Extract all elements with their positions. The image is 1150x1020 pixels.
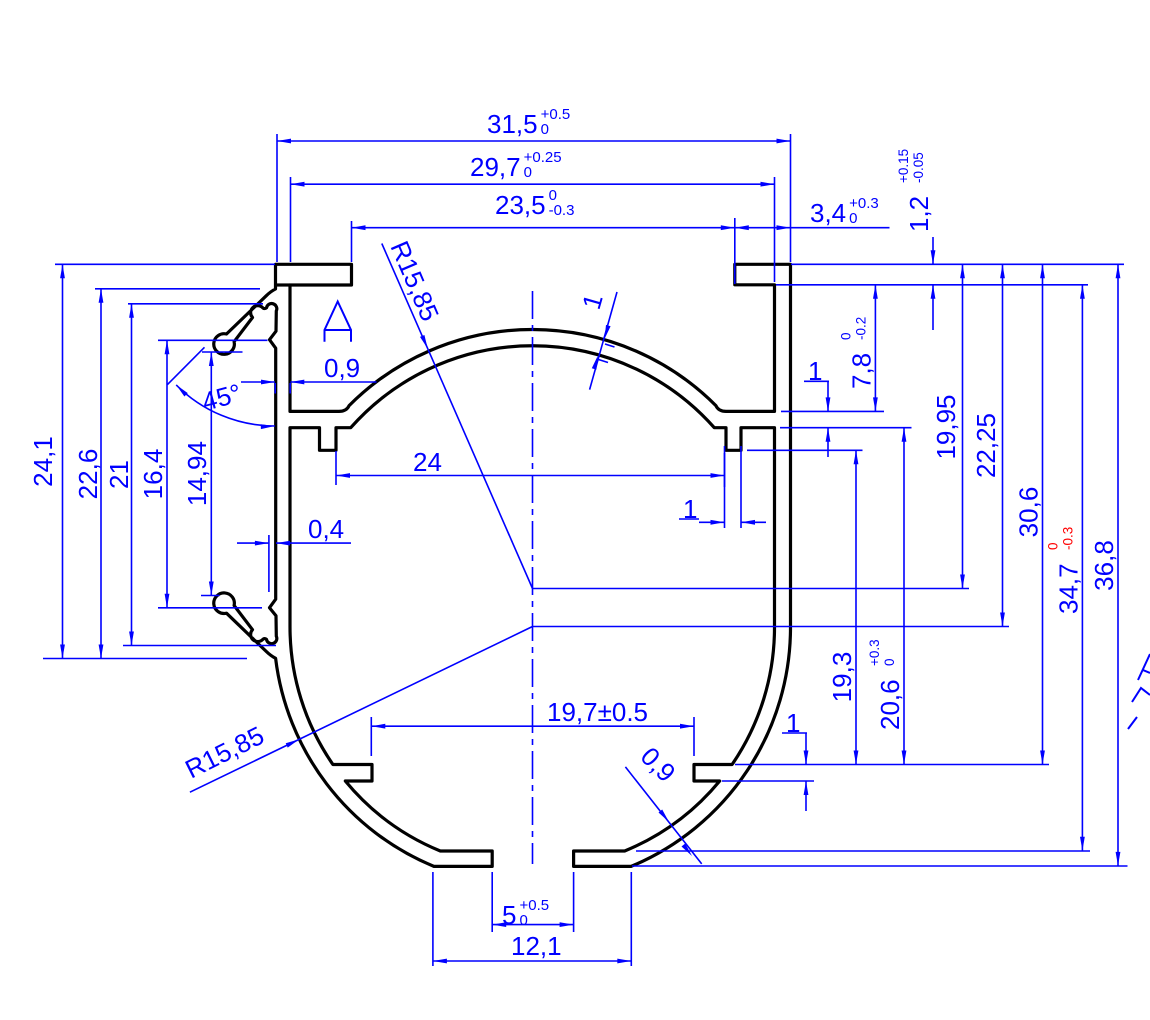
svg-text:-0.05: -0.05: [911, 152, 926, 183]
svg-text:16,4: 16,4: [138, 449, 168, 500]
svg-text:19,95: 19,95: [931, 394, 961, 459]
svg-text:21: 21: [104, 460, 134, 489]
svg-text:-0.3: -0.3: [549, 202, 575, 219]
svg-text:-0.2: -0.2: [853, 317, 868, 340]
svg-text:24,1: 24,1: [28, 436, 58, 487]
svg-text:+0.15: +0.15: [896, 149, 911, 183]
svg-text:24: 24: [413, 447, 442, 477]
svg-text:1: 1: [683, 494, 697, 524]
svg-text:22,25: 22,25: [971, 413, 1001, 478]
svg-text:1,2: 1,2: [904, 196, 934, 232]
svg-text:0,9: 0,9: [324, 353, 360, 383]
svg-text:0,4: 0,4: [308, 514, 344, 544]
svg-text:-0.3: -0.3: [1060, 527, 1075, 550]
svg-text:14,94: 14,94: [182, 441, 212, 506]
svg-text:19,3: 19,3: [827, 652, 857, 703]
svg-text:1: 1: [808, 356, 822, 386]
svg-text:0: 0: [838, 332, 853, 340]
svg-text:12,1: 12,1: [511, 931, 562, 961]
svg-text:+0.3: +0.3: [867, 639, 882, 666]
svg-text:30,6: 30,6: [1014, 487, 1044, 538]
svg-text:0: 0: [882, 658, 897, 666]
svg-text:3,4: 3,4: [810, 198, 846, 228]
svg-text:22,6: 22,6: [73, 449, 103, 500]
svg-text:20,6: 20,6: [875, 679, 905, 730]
svg-text:19,7±0.5: 19,7±0.5: [547, 697, 648, 727]
svg-text:7,8: 7,8: [846, 353, 876, 389]
svg-text:0: 0: [520, 912, 528, 929]
svg-text:0: 0: [1045, 542, 1060, 550]
svg-text:31,5: 31,5: [487, 109, 538, 139]
svg-text:5: 5: [502, 900, 516, 930]
svg-text:23,5: 23,5: [495, 190, 546, 220]
svg-text:34,7: 34,7: [1053, 563, 1083, 614]
svg-text:0: 0: [524, 164, 532, 181]
svg-text:29,7: 29,7: [470, 152, 521, 182]
svg-text:1: 1: [786, 708, 800, 738]
svg-text:36,8: 36,8: [1089, 540, 1119, 591]
svg-text:0: 0: [849, 210, 857, 227]
svg-text:0: 0: [541, 121, 549, 138]
